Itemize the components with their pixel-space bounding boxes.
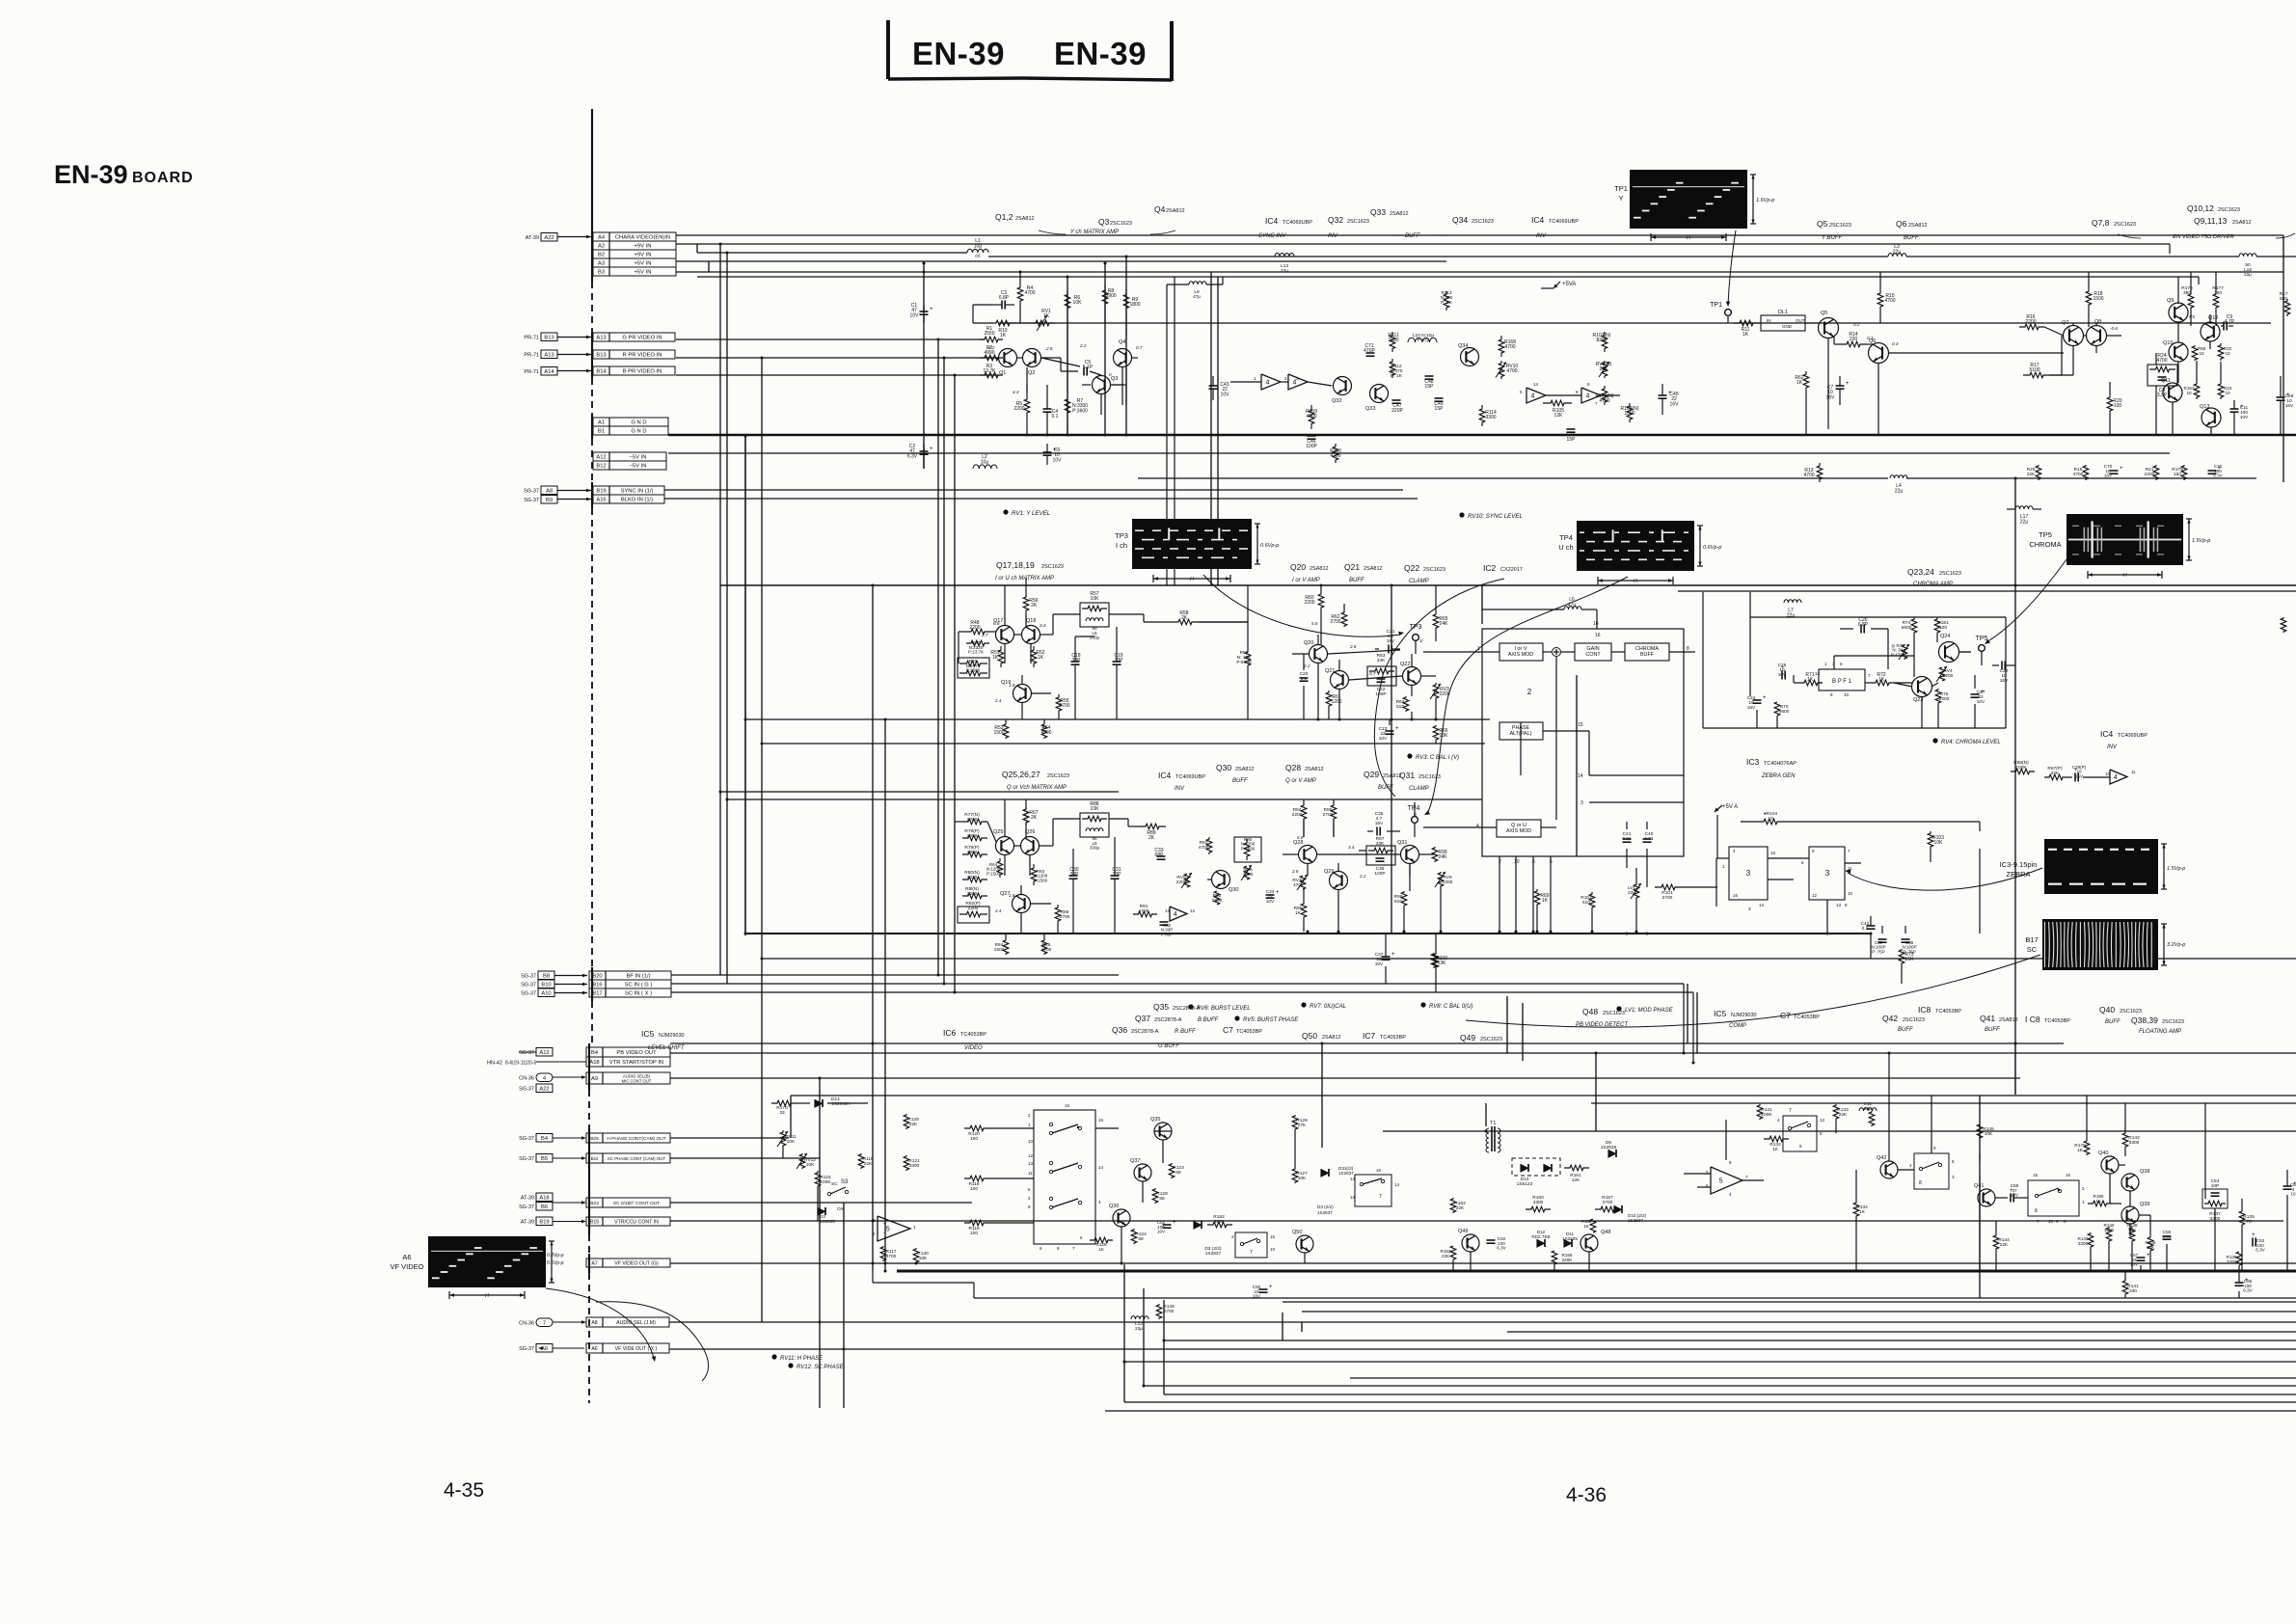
resistor R178 150	[2181, 465, 2187, 480]
svg-text:D3 (2/2): D3 (2/2)	[1317, 1204, 1334, 1209]
resistor R125 1K	[1090, 1237, 1113, 1243]
svg-text:TC4053BP: TC4053BP	[1236, 1029, 1262, 1035]
wire H2 y=262	[697, 252, 967, 254]
resistor R11 1K	[1734, 320, 1759, 326]
junction dot 1	[726, 252, 729, 255]
resistor R5 2200	[1024, 393, 1030, 419]
wire H7 y=282	[676, 271, 2283, 273]
svg-text:PR-71: PR-71	[524, 336, 539, 341]
svg-text:33: 33	[779, 1110, 785, 1116]
capacitor C19 33P	[1113, 661, 1121, 663]
inductor L7 22u	[1784, 600, 1789, 603]
svg-text:22μ: 22μ	[1893, 250, 1902, 256]
svg-text:MIC CONT OUT: MIC CONT OUT	[622, 1079, 652, 1084]
svg-text:1K: 1K	[1542, 898, 1549, 904]
svg-text:1500: 1500	[2093, 296, 2103, 302]
resistor R15 4700	[1877, 289, 1883, 311]
capacitor C69 10 16V	[2277, 396, 2285, 398]
resistor R81(N) 2260	[962, 893, 987, 899]
wire bottom right cluster	[1898, 1169, 1914, 1171]
svg-text:10μ: 10μ	[981, 460, 989, 466]
wire V2 x=747	[719, 244, 721, 975]
resistor R133 22K	[1833, 1104, 1839, 1120]
svg-text:16V: 16V	[1670, 401, 1680, 407]
connector B2 +9V IN	[593, 250, 676, 258]
svg-text:2SC1623: 2SC1623	[1939, 571, 1961, 577]
svg-text:+: +	[883, 1221, 886, 1227]
svg-text:TP4: TP4	[1559, 533, 1573, 542]
svg-text:TC4069UBP: TC4069UBP	[1175, 774, 1205, 780]
svg-text:Q10: Q10	[2163, 340, 2173, 346]
svg-text:Q8: Q8	[2094, 319, 2101, 325]
svg-text:22K: 22K	[2051, 771, 2060, 776]
connector B12 -5V IN	[593, 461, 666, 470]
svg-text:Q50: Q50	[1292, 1230, 1302, 1235]
svg-text:2SC1623: 2SC1623	[1829, 223, 1851, 229]
svg-text:Q20: Q20	[1304, 640, 1313, 646]
svg-text:P:1500: P:1500	[1034, 878, 1048, 882]
svg-text:2.2: 2.2	[1359, 874, 1366, 879]
svg-text:14: 14	[1098, 1165, 1104, 1170]
wire H22 y=771	[762, 743, 1485, 744]
svg-text:1500: 1500	[1624, 411, 1634, 417]
potentiometer RV3 2200	[1433, 683, 1439, 700]
svg-text:B25: B25	[590, 1136, 599, 1142]
filter R97 33K / C36 100P	[1366, 846, 1395, 865]
transistor Q28	[1299, 846, 1317, 864]
svg-text:2200: 2200	[1292, 812, 1303, 818]
svg-text:3320: 3320	[967, 875, 978, 880]
resistor R20 100	[2107, 393, 2113, 415]
svg-text:7: 7	[543, 1320, 546, 1326]
svg-text:AUDIO SEL (J.M): AUDIO SEL (J.M)	[616, 1320, 656, 1326]
svg-text:B19: B19	[539, 1219, 549, 1225]
oscillogram TP3 I ch	[1132, 519, 1252, 569]
svg-text:+5V IN: +5V IN	[635, 261, 652, 267]
svg-text:Q38,39: Q38,39	[2131, 1015, 2158, 1025]
wire V25 x=1655	[1595, 1053, 1597, 1131]
svg-text:1K: 1K	[1583, 1224, 1590, 1229]
svg-text:0.1: 0.1	[1052, 414, 1059, 420]
parallel C54 10P / R137 3300	[2202, 1189, 2228, 1208]
svg-text:A14: A14	[544, 369, 554, 375]
stub SG-37 A10	[538, 988, 554, 997]
wire H15 y=496	[1138, 477, 1888, 479]
svg-text:4990: 4990	[984, 350, 994, 356]
svg-text:P:1500: P:1500	[986, 871, 1001, 876]
inductor L11 22u	[1859, 1108, 1864, 1111]
svg-text:P: 1K: P: 1K	[1391, 373, 1403, 379]
capacitor C11 100 10V	[2230, 408, 2239, 410]
wire H1 y=253	[676, 243, 2170, 245]
wire V17 x=1371	[1321, 1043, 1323, 1148]
resistor R176 390	[2188, 291, 2194, 311]
wire H9 y=335	[998, 322, 2271, 324]
resistor R126 27K	[1292, 1115, 1298, 1130]
svg-text:RV5: BURST PHASE: RV5: BURST PHASE	[1243, 1017, 1299, 1023]
svg-text:BUFF: BUFF	[1985, 1027, 2000, 1033]
svg-text:100K: 100K	[2015, 765, 2027, 771]
svg-text:10: 10	[1844, 692, 1850, 697]
capacitor C70 10 16V	[2110, 470, 2119, 472]
leader TP1	[1728, 230, 1736, 305]
note RV11 H PHASE	[771, 1354, 776, 1359]
resistor R61 1200	[1326, 690, 1332, 708]
svg-text:24K: 24K	[1440, 621, 1449, 627]
resistor R94 2200	[1301, 804, 1307, 820]
oscillogram B17 SC	[2042, 919, 2158, 970]
capacitor C43 22 10V	[1209, 385, 1218, 387]
svg-text:Q23,24: Q23,24	[1907, 567, 1934, 577]
svg-text:A22: A22	[539, 1086, 549, 1092]
capacitor C31 33P	[1111, 875, 1120, 877]
svg-text:1500: 1500	[1388, 338, 1398, 343]
svg-text:3.3P: 3.3P	[2157, 392, 2168, 398]
svg-text:A8: A8	[546, 488, 553, 494]
svg-text:B2: B2	[598, 253, 605, 258]
svg-text:G N D: G N D	[631, 420, 646, 426]
wire H48 y=1412	[1124, 1361, 2296, 1363]
svg-text:2SA812: 2SA812	[1015, 216, 1035, 222]
svg-text:4700: 4700	[1884, 298, 1895, 304]
wire IC2 pins	[1423, 651, 1499, 653]
resistor R76 2200	[1935, 689, 1941, 704]
capacitor C44 15P	[1567, 428, 1576, 430]
opamp IC5b	[1711, 1167, 1742, 1194]
svg-text:75: 75	[2246, 1219, 2252, 1225]
svg-text:22μ: 22μ	[2020, 520, 2029, 526]
stub SG-37 B6 (B23)	[536, 1203, 553, 1211]
svg-text:2SC1623: 2SC1623	[2218, 207, 2240, 213]
svg-text:TC4053BP: TC4053BP	[1380, 1035, 1406, 1041]
svg-text:RV12: SC PHASE: RV12: SC PHASE	[797, 1365, 845, 1370]
svg-text:+: +	[2147, 1253, 2150, 1259]
svg-text:HN-42: HN-42	[487, 1061, 502, 1067]
wire H18 y=517	[664, 498, 1418, 500]
capacitor C20 0.1	[1300, 677, 1309, 679]
svg-text:Q33: Q33	[1370, 207, 1386, 217]
svg-text:10: 10	[2186, 391, 2192, 395]
svg-text:INV: INV	[1328, 233, 1338, 239]
wire ic5 opamp	[1684, 1173, 1711, 1175]
svg-text:4700: 4700	[1024, 290, 1035, 296]
svg-text:A18: A18	[539, 1195, 549, 1201]
svg-text:14: 14	[1759, 903, 1765, 907]
svg-text:CX22017: CX22017	[1500, 567, 1523, 573]
stub SG-37 B9	[541, 496, 557, 504]
resistor R139 10K	[2129, 1227, 2135, 1242]
connector A9 MIC CONT OUT	[586, 1072, 670, 1084]
resistor R4 4700	[1017, 282, 1023, 307]
resistor R100 13K	[1431, 953, 1437, 968]
svg-text:INV: INV	[2107, 744, 2118, 750]
svg-text:2SC1623: 2SC1623	[1423, 567, 1445, 573]
svg-text:6.8: 6.8	[1297, 835, 1304, 840]
svg-text:1K: 1K	[1796, 380, 1803, 386]
stub PR-71 B13	[541, 333, 557, 341]
wire Q17 drops	[1004, 644, 1006, 663]
wire H28 y=1020	[671, 983, 1684, 985]
svg-text:+: +	[1395, 726, 1399, 732]
capacitor C26 6.8P	[1860, 625, 1862, 634]
svg-text:TP3: TP3	[1115, 531, 1128, 540]
svg-text:0: 0	[2067, 326, 2070, 331]
svg-text:IN: IN	[1767, 318, 1771, 323]
transistor Q13	[2201, 408, 2221, 427]
wire H12 y=389	[676, 374, 999, 376]
svg-text:CHROMA: CHROMA	[2029, 540, 2061, 549]
stub SG-37 A12 (B4)	[536, 1048, 553, 1057]
svg-text:Y: Y	[1618, 194, 1623, 203]
wire H29 y=1029	[671, 991, 1693, 993]
resistor R160 3300	[1526, 1206, 1551, 1212]
svg-text:14: 14	[1394, 1182, 1400, 1187]
svg-text:33P: 33P	[1113, 872, 1122, 878]
svg-text:S3: S3	[841, 1179, 849, 1185]
resistor R110 4700	[1333, 444, 1338, 463]
svg-text:Q9,11,13: Q9,11,13	[2194, 216, 2228, 226]
svg-text:100K: 100K	[1761, 1112, 1772, 1118]
svg-text:LV1; MOD PHASE: LV1; MOD PHASE	[1625, 1008, 1674, 1014]
svg-text:-0.6: -0.6	[2110, 326, 2118, 331]
svg-text:2.2: 2.2	[1079, 343, 1087, 348]
stub PR-71 A14	[541, 367, 557, 376]
svg-text:2.2: 2.2	[987, 345, 995, 350]
svg-text:B14: B14	[596, 369, 607, 375]
svg-text:0.1: 0.1	[1301, 676, 1308, 682]
opamp IC5a	[878, 1216, 910, 1241]
svg-text:16V: 16V	[1747, 705, 1756, 711]
svg-text:Q40: Q40	[2099, 1005, 2115, 1015]
svg-text:16V: 16V	[2285, 403, 2294, 409]
block GAIN CONT	[1575, 643, 1611, 661]
svg-text:AT-39: AT-39	[521, 1220, 534, 1226]
transistor Q4	[1114, 349, 1132, 367]
resistor R65 24K	[1433, 613, 1439, 629]
wire V15 x=2090	[2014, 478, 2016, 1095]
svg-text:Q30: Q30	[1216, 763, 1231, 772]
svg-text:16: 16	[2066, 1173, 2071, 1177]
svg-text:VTR START/STOP IN: VTR START/STOP IN	[609, 1060, 663, 1066]
svg-text:2SA812: 2SA812	[1305, 767, 1324, 772]
svg-text:2K: 2K	[1031, 603, 1038, 609]
svg-text:B PR VIDEO IN: B PR VIDEO IN	[623, 369, 662, 375]
wire H11 y=371	[676, 357, 999, 359]
svg-text:10V: 10V	[1977, 699, 1985, 705]
svg-text:3: 3	[1746, 869, 1751, 878]
svg-text:P: 75P: P: 75P	[1872, 949, 1885, 954]
wire V20 x=1166	[1123, 1264, 1125, 1402]
resistor R14 220	[1840, 341, 1867, 347]
svg-text:P: 1K: P: 1K	[1441, 300, 1453, 306]
svg-text:1K: 1K	[1807, 677, 1814, 683]
leader TP3	[1203, 575, 1400, 636]
svg-text:1.5Vp-p: 1.5Vp-p	[2167, 866, 2185, 872]
wire V10 x=1107	[1067, 277, 1068, 435]
svg-text:B10: B10	[541, 982, 551, 988]
svg-text:IC3: IC3	[1746, 757, 1760, 767]
svg-text:22μ: 22μ	[1787, 613, 1796, 619]
svg-text:2700: 2700	[1059, 703, 1069, 709]
svg-text:Q33: Q33	[1365, 406, 1375, 412]
svg-text:10K: 10K	[2147, 1245, 2155, 1250]
svg-text:B17: B17	[2025, 935, 2038, 944]
svg-text:Q41: Q41	[1980, 1014, 1995, 1023]
capacitor C10 100 6.3V	[2208, 470, 2217, 472]
svg-text:33K: 33K	[1377, 658, 1386, 663]
junction dot 20	[1485, 1130, 1488, 1133]
capacitor C39 N100P	[1878, 938, 1887, 940]
block I or V AXIS MOD	[1499, 643, 1543, 661]
resistor R22 10	[2218, 343, 2224, 361]
resistor R99 24K	[1432, 847, 1438, 862]
resistor R98 510	[1401, 891, 1407, 907]
inductor L6 47u	[1564, 607, 1569, 609]
svg-text:−5V IN: −5V IN	[630, 464, 647, 470]
svg-text:16V: 16V	[2075, 773, 2083, 778]
transistor Q39 sym	[2121, 1206, 2139, 1224]
note RV10 SYNC LEVEL	[1459, 512, 1464, 517]
svg-text:2SC1623: 2SC1623	[1480, 1037, 1502, 1042]
svg-text:68P: 68P	[1155, 853, 1165, 858]
transistor Q34	[1461, 348, 1479, 366]
svg-text:6.3V: 6.3V	[1497, 1246, 1506, 1251]
svg-text:4700: 4700	[1040, 730, 1051, 736]
svg-text:10: 10	[1514, 859, 1520, 865]
inductor L2 10u	[973, 465, 979, 469]
svg-text:BUFF: BUFF	[1405, 233, 1420, 239]
diode D11 1S2835	[1564, 1239, 1572, 1247]
svg-text:CN-36: CN-36	[519, 1076, 534, 1082]
svg-text:B13: B13	[544, 335, 554, 340]
svg-text:3: 3	[1825, 869, 1830, 878]
svg-text:B BUFF: B BUFF	[1198, 1017, 1219, 1023]
svg-text:1S2835: 1S2835	[1601, 1145, 1617, 1150]
svg-text:2200: 2200	[2025, 319, 2036, 325]
svg-text:10: 10	[2105, 771, 2111, 776]
transistor Q2	[1023, 349, 1041, 367]
inverter IC4a	[1261, 374, 1281, 390]
svg-text:SG-37: SG-37	[521, 991, 536, 997]
resistor R104 10	[1759, 819, 1782, 825]
svg-text:Q11: Q11	[2161, 378, 2171, 384]
inductor L13 22u	[1275, 254, 1280, 257]
svg-text:B20: B20	[592, 974, 602, 980]
capacitor C62 100 6.3V	[1487, 1239, 1496, 1241]
wire H42 y=1350	[1283, 1301, 2296, 1303]
svg-text:0.6Vp-p: 0.6Vp-p	[1260, 543, 1279, 549]
svg-text:SYNC IN (1/): SYNC IN (1/)	[621, 489, 654, 495]
svg-text:5100: 5100	[2029, 367, 2039, 373]
svg-text:SG-37: SG-37	[519, 1346, 534, 1352]
potentiometer RV6 2200	[1184, 874, 1190, 887]
svg-text:2700: 2700	[1603, 1200, 1613, 1205]
svg-text:Q18: Q18	[1026, 618, 1036, 624]
diode box D13 1S5123	[1512, 1158, 1560, 1176]
svg-text:A2: A2	[598, 244, 605, 250]
svg-text:11: 11	[1028, 1171, 1033, 1176]
resistor R2 4990	[980, 355, 1003, 361]
wire H26 y=994	[762, 958, 2296, 960]
svg-text:Q49: Q49	[1460, 1033, 1475, 1042]
capacitor C7 10 16V	[1836, 385, 1845, 387]
svg-text:+9V IN: +9V IN	[635, 253, 652, 258]
resistor R96 2700	[1331, 804, 1337, 820]
svg-text:22μ: 22μ	[1281, 268, 1288, 274]
inverter IC4b	[1288, 374, 1308, 390]
resistor R21 2200	[2153, 465, 2159, 480]
svg-text:1500: 1500	[2104, 1228, 2115, 1232]
svg-text:2SC2878-A: 2SC2878-A	[1173, 1006, 1201, 1012]
svg-text:4700: 4700	[1041, 947, 1052, 953]
junction dot 0	[719, 243, 722, 246]
wire V11 x=1146	[1104, 263, 1106, 435]
svg-text:12: 12	[1028, 1153, 1034, 1158]
transistor Q41 sym	[1978, 1189, 1995, 1206]
svg-text:1S2835: 1S2835	[1562, 1236, 1578, 1241]
capacitor C1 47 10V	[923, 306, 925, 311]
svg-text:B24: B24	[591, 1156, 599, 1161]
svg-text:4-36: 4-36	[1566, 1484, 1607, 1506]
junction dot 5	[744, 435, 747, 438]
svg-text:Q31: Q31	[1397, 840, 1407, 846]
svg-text:2SC1623: 2SC1623	[2120, 1009, 2142, 1015]
capacitor C2 47 6.3V	[923, 445, 925, 451]
junction dot 21	[1595, 1052, 1598, 1055]
wire IC4 cluster	[1230, 381, 1261, 383]
wire H40 y=1318	[897, 1270, 2296, 1273]
svg-text:100P: 100P	[1375, 691, 1386, 697]
svg-text:IC2: IC2	[1483, 563, 1497, 573]
resistor R17 5100	[2023, 372, 2050, 378]
connector B15 VTR/CCU CONT IN	[586, 1217, 670, 1226]
svg-text:Q22: Q22	[1404, 563, 1419, 573]
svg-text:10V: 10V	[1253, 1294, 1261, 1299]
svg-text:10K: 10K	[1073, 300, 1083, 306]
svg-text:220P: 220P	[1391, 408, 1403, 414]
svg-text:SG-37: SG-37	[519, 1087, 534, 1093]
transistor Q35	[1154, 1123, 1172, 1140]
svg-text:4: 4	[2114, 774, 2118, 781]
switch IC6c	[1049, 1197, 1052, 1200]
svg-text:Q32: Q32	[1332, 398, 1341, 404]
wire V18 x=1563	[1506, 996, 1508, 1053]
svg-text:Q25: Q25	[993, 829, 1003, 835]
transistor Q3	[1093, 376, 1111, 394]
svg-text:1.8: 1.8	[1009, 893, 1015, 898]
svg-text:2.8: 2.8	[1349, 644, 1357, 649]
transistor Q19	[1013, 685, 1032, 703]
svg-text:2200: 2200	[967, 817, 978, 823]
inverter IC4d	[1581, 388, 1601, 403]
svg-text:0.6Vp-p: 0.6Vp-p	[547, 1260, 564, 1266]
svg-text:A13: A13	[544, 352, 554, 358]
block CHROMA BUFF	[1625, 643, 1669, 661]
svg-text:Q30: Q30	[1229, 887, 1238, 893]
svg-text:4700: 4700	[1330, 453, 1340, 459]
resistor R90 N4700	[1234, 837, 1261, 862]
stub AT-39 A22	[541, 233, 557, 242]
wire H54 y=1173	[1383, 1130, 2296, 1132]
svg-text:150: 150	[2174, 472, 2181, 477]
svg-text:100: 100	[970, 1231, 978, 1236]
transistor Q50	[1296, 1235, 1313, 1253]
wire V24 x=1350	[1301, 1322, 1303, 1332]
resistor R161 12K	[1564, 1165, 1589, 1171]
note RV12 SC PHASE	[788, 1363, 793, 1367]
svg-text:4: 4	[1530, 393, 1534, 400]
wire Q20 drops	[1317, 663, 1319, 719]
